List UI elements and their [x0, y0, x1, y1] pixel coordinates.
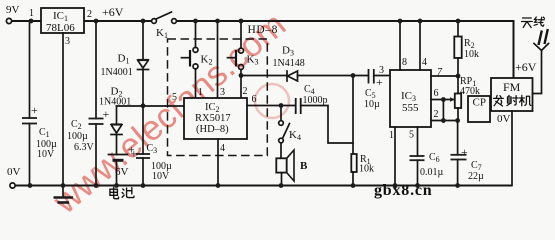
wire IC2 pin 4 to ground rail: [217, 139, 219, 186]
svg-text:B: B: [300, 160, 308, 172]
switch K1: [152, 12, 177, 40]
wire 555 pin 1 to ground rail: [389, 127, 395, 186]
potentiometer RP1 470k: [455, 76, 480, 121]
diode D1 1N4001: [101, 21, 149, 154]
label battery dianchi: [110, 187, 134, 198]
svg-text:HD–8: HD–8: [248, 24, 279, 36]
svg-text:10µ: 10µ: [364, 99, 380, 110]
ground: [54, 186, 74, 203]
capacitor C1 100u 10V: [22, 21, 57, 186]
capacitor C6 0.01u on pin 5: [409, 127, 444, 186]
svg-text:3: 3: [220, 87, 225, 98]
svg-text:6.3V: 6.3V: [74, 142, 95, 153]
svg-text:4: 4: [422, 57, 427, 68]
svg-text:78L06: 78L06: [46, 22, 75, 34]
wire 555 pin 8 to rail: [400, 21, 407, 70]
svg-text:100µ: 100µ: [67, 131, 88, 142]
svg-text:1: 1: [389, 130, 394, 141]
wire 555 pin 2: [431, 109, 458, 121]
wire IC1 pin 2 to +6V rail: [87, 5, 124, 20]
svg-text:+6V: +6V: [515, 60, 537, 74]
svg-text:10k: 10k: [359, 164, 374, 175]
junction dots middle: [141, 73, 461, 123]
box CP: [468, 96, 490, 122]
regulator IC1 78L06: [41, 8, 84, 34]
wire top rail left section: [84, 20, 151, 22]
svg-text:RX5017: RX5017: [195, 113, 231, 124]
svg-text:1N4148: 1N4148: [273, 58, 305, 69]
pin labels IC2: [172, 86, 257, 154]
wire 9V terminal to IC1 pin 1: [12, 8, 41, 21]
svg-text:+: +: [461, 145, 468, 159]
watermark www.elecfans.com: [45, 5, 293, 222]
dashed enclosure HD-8: [168, 24, 279, 156]
svg-text:0.01µ: 0.01µ: [420, 167, 444, 178]
wire pin 3 of IC1 to ground rail: [63, 33, 70, 186]
svg-text:4: 4: [220, 143, 225, 154]
svg-text:1N4001: 1N4001: [101, 67, 133, 78]
capacitor C5 10u: [353, 65, 390, 110]
antenna: [522, 17, 549, 94]
svg-text:1: 1: [198, 87, 203, 98]
svg-text:+: +: [103, 107, 110, 121]
timer IC3 555: [390, 70, 431, 127]
pushbutton K4: [279, 106, 301, 159]
capacitor C7 22u: [451, 121, 485, 186]
node 9V input terminal: [6, 4, 20, 24]
resistor R2 10k: [454, 21, 479, 94]
svg-text:2: 2: [87, 9, 92, 20]
svg-text:10k: 10k: [464, 49, 479, 60]
box FM transmitter: [491, 78, 533, 111]
wire 555 pin 4 to rail: [420, 21, 427, 70]
diode D3 1N4148: [241, 45, 353, 82]
wire node line to IC2 pin 5: [117, 105, 185, 107]
svg-text:5: 5: [172, 92, 177, 103]
svg-text:22µ: 22µ: [468, 171, 484, 182]
capacitor C4 1000p: [247, 84, 353, 143]
node 0V terminal: [7, 166, 21, 188]
melody chip IC2 RX5017: [184, 98, 247, 139]
svg-text:1: 1: [29, 8, 34, 19]
watermark circle logo: [255, 84, 289, 118]
svg-text:9V: 9V: [6, 4, 20, 16]
svg-text:10V: 10V: [152, 171, 170, 182]
battery 6V: [109, 143, 136, 186]
svg-text:3: 3: [65, 36, 70, 47]
svg-text:8: 8: [402, 57, 407, 68]
svg-text:0V: 0V: [7, 166, 21, 178]
resistor R1 10k: [351, 76, 374, 186]
wire bottom rail: [15, 185, 512, 187]
wire IC2 pin 3 to rail: [217, 21, 219, 98]
svg-text:10V: 10V: [37, 149, 55, 160]
svg-text:6: 6: [434, 88, 439, 99]
capacitor C3 100u 10V: [131, 143, 173, 186]
diode D2 1N4001: [99, 86, 131, 155]
wire top rail right section with drop to FM box: [177, 21, 514, 78]
svg-text:5: 5: [409, 130, 414, 141]
pushbutton K3: [228, 21, 259, 98]
wire 555 pin 7: [431, 67, 458, 78]
junction dots bottom rail: [28, 183, 460, 188]
svg-text:+: +: [131, 147, 138, 161]
svg-text:(HD–8): (HD–8): [196, 124, 229, 135]
junction dots top rail: [29, 19, 461, 24]
speaker B: [276, 150, 308, 186]
svg-text:1000p: 1000p: [303, 95, 328, 106]
svg-text:2: 2: [243, 86, 248, 97]
svg-text:gbx8.cn: gbx8.cn: [374, 182, 433, 199]
svg-text:1N4001: 1N4001: [99, 97, 131, 108]
svg-text:0V: 0V: [497, 113, 511, 125]
capacitor C2 100u 6.3V: [67, 21, 110, 186]
wire FM ground: [511, 111, 513, 186]
svg-text:6: 6: [252, 94, 257, 105]
svg-text:2: 2: [434, 109, 439, 120]
svg-text:+6V: +6V: [102, 5, 124, 19]
svg-text:+: +: [31, 103, 38, 117]
svg-text:6V: 6V: [115, 166, 129, 178]
wire pin6-pin2 link: [442, 100, 444, 121]
svg-text:555: 555: [402, 102, 419, 114]
pushbutton K2: [182, 21, 213, 98]
wire 555 pin 6 to RP1 wiper: [431, 88, 455, 102]
svg-text:FM: FM: [503, 80, 521, 94]
svg-text:+: +: [376, 75, 383, 89]
svg-text:CP: CP: [473, 97, 486, 109]
